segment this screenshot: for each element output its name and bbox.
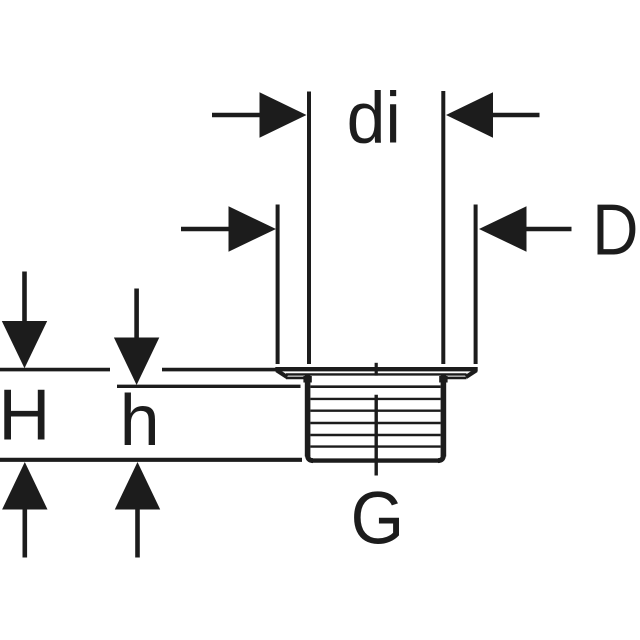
- dimension D: right extension line: [474, 205, 478, 365]
- dimension H: top reference line (left segment): [0, 368, 110, 372]
- dimension di: right arrowhead: [446, 92, 493, 137]
- dimension D: right arrowhead: [479, 206, 527, 251]
- dimension h: top down-arrow tail: [134, 289, 139, 339]
- dimension di: right extension line: [441, 91, 445, 364]
- dimension H: top down-arrow tail: [22, 272, 27, 323]
- dimension di: left extension line: [307, 92, 311, 365]
- centerline: upper segment through flange: [375, 363, 378, 376]
- dimension H: bottom up-arrowhead: [2, 462, 47, 510]
- dimension di: right arrow tail: [492, 113, 540, 118]
- thread line 5: [311, 434, 441, 436]
- svg-text:G: G: [351, 477, 405, 560]
- dimension D: left arrowhead: [229, 206, 277, 251]
- thread line 6: [311, 445, 441, 447]
- dimension h: top down-arrowhead: [114, 338, 159, 386]
- dimension h: bottom up-arrow tail: [135, 509, 140, 558]
- fitting flange: right bevel: [466, 370, 476, 377]
- dimension di: left arrowhead: [260, 92, 307, 137]
- fitting flange: top edge: [275, 367, 477, 371]
- fitting body: bottom-right corner: [438, 455, 443, 461]
- thread line 3: [311, 410, 441, 412]
- fitting flange: underside inner line: [286, 373, 467, 375]
- fitting body: left wall: [305, 375, 311, 457]
- fitting body: left wall top flare: [303, 376, 311, 383]
- dimension D: left extension line: [276, 205, 280, 365]
- dimension D: left arrow tail: [181, 227, 230, 232]
- fitting body: bottom edge: [311, 458, 440, 462]
- dimension di: left arrow tail: [212, 113, 261, 118]
- thread line 2: [311, 398, 441, 400]
- dimension H: top reference line (right segment to flange): [162, 368, 276, 372]
- fitting flange: underside left stub: [286, 377, 307, 380]
- dimension H: bottom up-arrow tail: [22, 509, 27, 558]
- dimension h: top reference line: [117, 385, 301, 388]
- svg-text:H: H: [0, 376, 50, 456]
- shared bottom reference line: [0, 458, 302, 462]
- dimension H: top down-arrowhead: [2, 321, 47, 368]
- svg-text:di: di: [347, 79, 401, 159]
- fitting body: right wall: [441, 375, 447, 457]
- fitting flange: underside right stub: [445, 377, 467, 380]
- fitting body: bottom-left corner: [308, 455, 313, 461]
- fitting body: right wall top flare: [439, 376, 447, 383]
- svg-text:D: D: [592, 190, 638, 270]
- thread line 1: [311, 385, 441, 388]
- thread line 4: [311, 422, 441, 424]
- dimension h: bottom up-arrowhead: [115, 462, 160, 510]
- svg-text:h: h: [120, 381, 160, 461]
- dimension D: right arrow tail: [526, 227, 572, 232]
- centerline: lower segment through body: [375, 395, 378, 476]
- fitting flange: left bevel: [277, 370, 287, 377]
